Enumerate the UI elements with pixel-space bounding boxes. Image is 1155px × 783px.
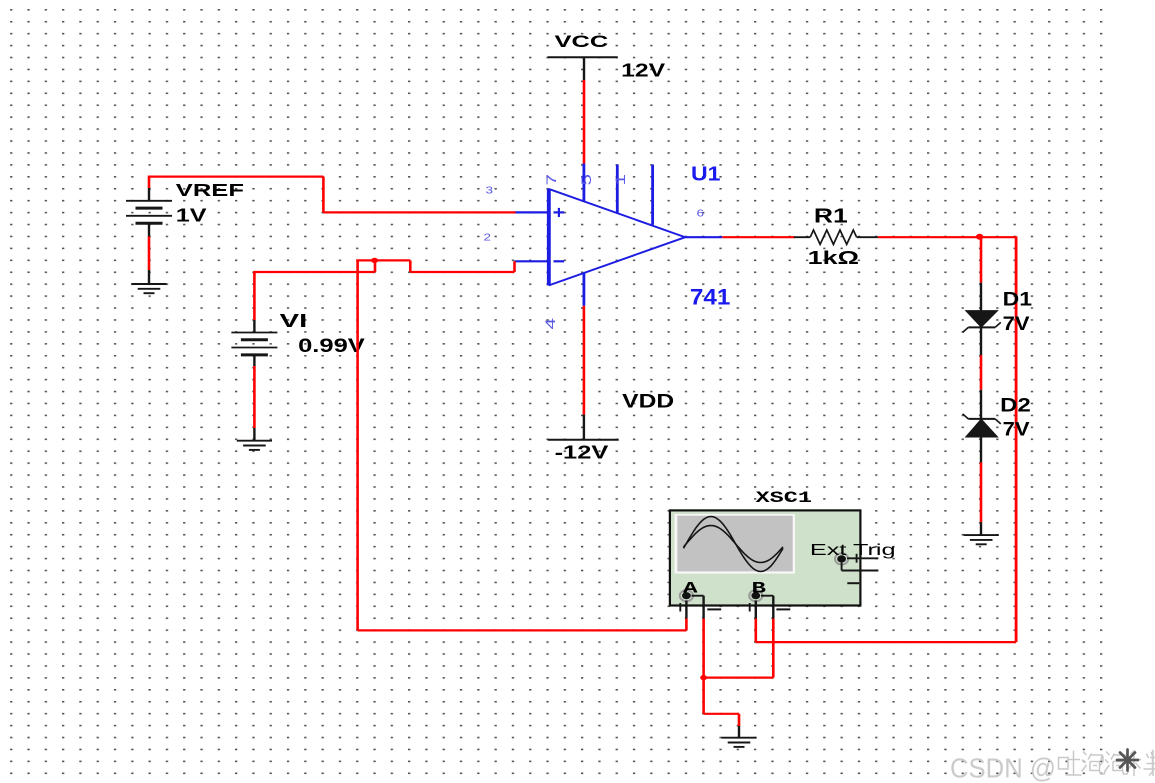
zener diode D1 xyxy=(963,283,1001,356)
zener diode D2 xyxy=(963,390,1001,463)
wire scope A- down to ground junction xyxy=(702,619,705,678)
svg-text:R1: R1 xyxy=(814,206,848,228)
svg-text:-12V: -12V xyxy=(555,443,609,463)
svg-text:7V: 7V xyxy=(1003,314,1030,335)
power symbol VDD xyxy=(548,415,619,440)
pin number 5 xyxy=(578,174,594,186)
svg-text:VREF: VREF xyxy=(176,180,245,200)
wire node to D1 xyxy=(980,237,983,283)
svg-text:3: 3 xyxy=(486,185,494,197)
ground (scope) xyxy=(721,726,756,747)
ground (VREF) xyxy=(131,270,166,293)
pin number 1 xyxy=(612,174,628,186)
svg-text:0.99V: 0.99V xyxy=(298,336,365,357)
wire VCC to U1 pin 7 xyxy=(583,80,586,164)
svg-text:1kΩ: 1kΩ xyxy=(808,247,860,268)
wire D1 to D2 xyxy=(980,355,983,390)
op-amp U1 xyxy=(515,164,723,306)
node junction VI / U1 pin2 / scope A xyxy=(371,258,378,263)
wire junction to scope ground xyxy=(704,678,739,726)
watermark dark star xyxy=(1117,750,1138,771)
svg-text:VI: VI xyxy=(280,311,308,331)
svg-text:1V: 1V xyxy=(176,206,207,226)
wire U1 pin 4 to VDD xyxy=(583,306,586,415)
svg-text:D1: D1 xyxy=(1003,290,1033,311)
svg-text:CSDN @: CSDN @ xyxy=(950,753,1056,783)
wire VREF+ to U1 pin 3 xyxy=(148,177,516,213)
pin number 4 xyxy=(542,318,558,330)
svg-text:D2: D2 xyxy=(1000,396,1031,417)
svg-text:7: 7 xyxy=(543,174,559,186)
svg-text:741: 741 xyxy=(690,285,731,310)
terminal A xyxy=(680,590,721,618)
svg-text:6: 6 xyxy=(697,208,705,220)
svg-text:5: 5 xyxy=(578,174,594,186)
svg-text:2: 2 xyxy=(484,232,492,244)
wire VREF- to ground xyxy=(148,237,151,271)
oscilloscope XSC1 xyxy=(670,510,861,605)
node junction scope grounds xyxy=(700,675,707,680)
resistor R1 xyxy=(794,230,878,244)
svg-text:VCC: VCC xyxy=(555,32,609,51)
ground (VI) xyxy=(237,428,272,450)
wire node to scope channel A xyxy=(356,260,686,630)
wire R1 to output node xyxy=(878,236,1016,238)
svg-text:B: B xyxy=(752,579,767,597)
wire D2 to ground xyxy=(980,462,983,522)
wire VI+ to node xyxy=(253,260,375,320)
battery VI xyxy=(231,320,277,366)
ground (diodes) xyxy=(964,522,999,544)
svg-text:A: A xyxy=(683,579,699,597)
svg-text:Ext Trig: Ext Trig xyxy=(810,542,896,559)
svg-text:7V: 7V xyxy=(1003,420,1030,441)
svg-text:4: 4 xyxy=(542,318,558,330)
pin number 7 xyxy=(543,174,559,186)
wire node to U1 pin 2 xyxy=(375,260,515,272)
wire VI- to ground xyxy=(253,366,256,428)
power symbol VCC xyxy=(548,57,618,80)
wire output node down to scope channel B xyxy=(756,236,1016,642)
node junction R1 / D1 / scope B xyxy=(976,234,983,240)
terminal Ext Trig xyxy=(835,553,878,583)
terminal B xyxy=(749,590,790,618)
battery VREF xyxy=(126,188,172,237)
svg-text:1: 1 xyxy=(612,174,628,186)
wire U1 output to R1 xyxy=(722,236,795,238)
svg-text:12V: 12V xyxy=(621,61,665,81)
svg-text:U1: U1 xyxy=(691,164,721,186)
wire scope B- down to ground junction xyxy=(704,619,774,678)
svg-text:XSC1: XSC1 xyxy=(756,489,812,507)
svg-text:VDD: VDD xyxy=(622,392,674,413)
